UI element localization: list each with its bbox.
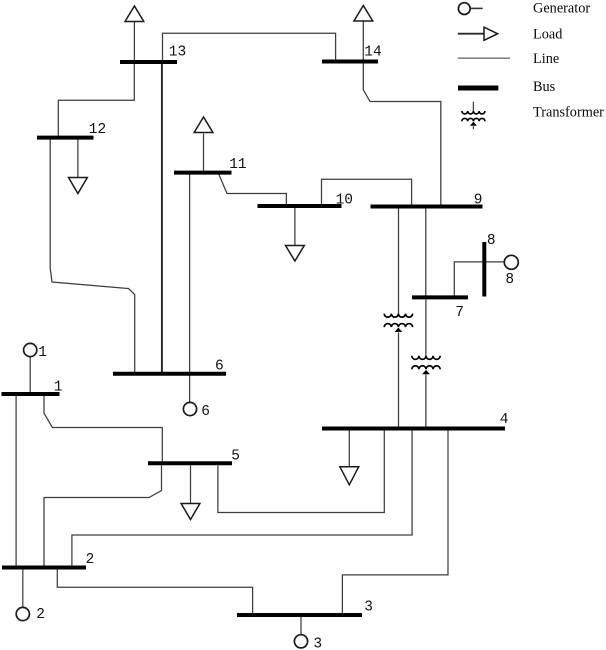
svg-text:Line: Line <box>533 51 559 67</box>
svg-text:6: 6 <box>201 404 210 420</box>
svg-text:3: 3 <box>364 599 373 615</box>
svg-text:14: 14 <box>364 45 381 61</box>
svg-text:1: 1 <box>54 379 63 395</box>
svg-text:8: 8 <box>487 233 496 249</box>
svg-text:Generator: Generator <box>533 0 590 16</box>
svg-text:Transformer: Transformer <box>533 105 604 121</box>
svg-text:13: 13 <box>169 45 186 61</box>
svg-text:10: 10 <box>336 192 353 208</box>
svg-text:2: 2 <box>86 552 95 568</box>
svg-text:7: 7 <box>455 305 464 321</box>
svg-text:8: 8 <box>505 272 514 288</box>
svg-text:Bus: Bus <box>533 79 556 95</box>
svg-text:11: 11 <box>229 157 246 173</box>
svg-text:3: 3 <box>313 637 322 650</box>
svg-text:12: 12 <box>89 122 106 138</box>
svg-text:9: 9 <box>474 192 483 208</box>
svg-text:6: 6 <box>215 359 224 375</box>
svg-text:5: 5 <box>231 448 240 464</box>
svg-text:2: 2 <box>36 607 45 623</box>
svg-text:4: 4 <box>500 412 509 428</box>
svg-text:Load: Load <box>533 27 562 43</box>
svg-text:1: 1 <box>38 345 47 361</box>
